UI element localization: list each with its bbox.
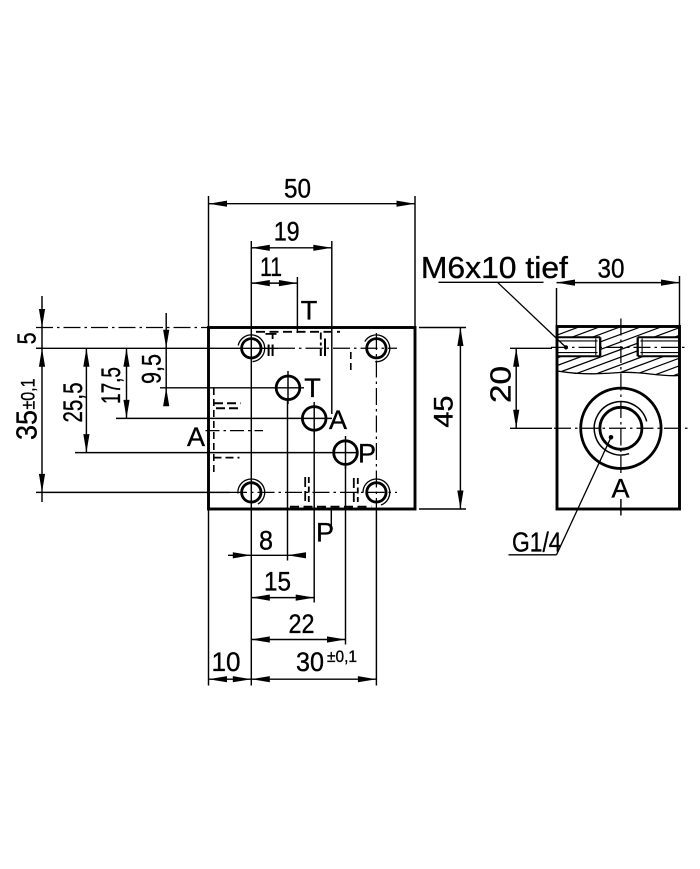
svg-text:T: T (304, 373, 321, 403)
port A row extension line (116, 417, 332, 419)
hidden detail near top-left bolt (266, 333, 277, 335)
svg-text:P: P (358, 439, 376, 469)
extension line port T down (287, 400, 289, 561)
svg-text:A: A (187, 422, 205, 452)
left bolt column extension line (250, 241, 252, 686)
svg-text:5: 5 (12, 332, 42, 344)
dimension 50 top (209, 203, 416, 205)
bolt hole centerline bottom row (36, 491, 230, 493)
port T row extension line (160, 387, 304, 389)
extension line bolt row to left (36, 347, 42, 349)
svg-text:30: 30 (296, 647, 324, 677)
dimension 15 bottom (251, 597, 314, 599)
svg-text:19: 19 (274, 217, 300, 247)
svg-text:G1/4: G1/4 (512, 527, 562, 558)
hidden line below top edge (256, 331, 340, 333)
hidden detail near top-right bolt (320, 333, 322, 346)
bolt hole top-left (242, 339, 261, 358)
extension line plate top to left (36, 327, 209, 329)
port A inner hole (600, 407, 642, 449)
svg-text:15: 15 (264, 567, 291, 597)
wavy break line (557, 371, 680, 376)
bolt hole bottom-left (242, 483, 261, 502)
M6 thread hole right slot (638, 336, 680, 338)
port A bore side view (581, 388, 661, 468)
bolt hole top-right (367, 339, 386, 358)
extension line port A down (313, 431, 315, 603)
svg-text:9,5: 9,5 (137, 354, 167, 384)
leader stub to P label (330, 509, 332, 526)
dimension 19 (251, 247, 331, 249)
bolt hole centerline top row (36, 347, 278, 349)
svg-text:T: T (301, 296, 318, 326)
dimension 22 bottom (251, 639, 345, 641)
dimension 35 +-0,1 left (41, 348, 43, 492)
dimension 8 bottom (228, 554, 306, 556)
extension line plate left edge down (208, 509, 210, 686)
hidden marks bottom left pair (304, 477, 306, 504)
svg-text:M6x10 tief: M6x10 tief (421, 250, 568, 285)
dimension 9,5 left (165, 313, 167, 388)
19 extension line into plate (331, 241, 333, 414)
svg-text:35: 35 (12, 410, 44, 440)
bolt hole bottom-right (367, 483, 386, 502)
svg-text:10: 10 (212, 647, 241, 677)
port A horizontal centerline (554, 427, 688, 429)
hidden contour bottom center (290, 506, 371, 508)
dimension 5 left (41, 296, 43, 348)
side view: block outline (557, 327, 680, 510)
front view: mounting plate outline (209, 328, 416, 510)
svg-text:±0,1: ±0,1 (19, 379, 40, 410)
svg-text:45: 45 (429, 396, 459, 428)
thread row centerline (551, 346, 686, 348)
dimension 30 +-0,1 bottom (251, 678, 376, 680)
port A vertical centerline (620, 319, 622, 478)
hidden marks bottom right pair (353, 478, 355, 502)
dimension 30 side top (557, 282, 680, 284)
dimension 25,5 left (85, 348, 87, 452)
svg-text:22: 22 (289, 609, 315, 639)
dimension 11 (251, 282, 297, 284)
hidden dash mid right (350, 352, 352, 370)
svg-text:±0,1: ±0,1 (327, 647, 357, 666)
svg-text:A: A (611, 474, 629, 504)
thread arc G1/4 (594, 402, 646, 455)
extension line port P down (345, 465, 347, 645)
dimension 45 right of plate (459, 328, 461, 510)
dimension 17,5 left (126, 348, 128, 418)
svg-text:20: 20 (486, 366, 518, 403)
svg-text:25,5: 25,5 (58, 383, 88, 423)
dimension 10 bottom left (209, 678, 252, 680)
svg-text:50: 50 (284, 174, 311, 204)
svg-text:30: 30 (598, 254, 625, 284)
M6 thread hole left slot (557, 336, 600, 338)
svg-text:8: 8 (259, 526, 273, 556)
hidden dash left lower (214, 457, 240, 459)
port A gallery centerline dash-dot (206, 430, 264, 432)
port A hole (302, 407, 326, 431)
hidden marks left (thread) (214, 402, 241, 404)
svg-text:11: 11 (260, 252, 282, 282)
port T hole (276, 376, 300, 400)
port P hole (334, 441, 358, 465)
11 extension line into plate (296, 277, 298, 333)
port P row extension line (75, 452, 358, 454)
dimension 20 side (515, 348, 517, 428)
right bolt column centerline (375, 333, 377, 509)
svg-text:17,5: 17,5 (96, 367, 126, 404)
hidden vertical line left side (213, 388, 215, 474)
